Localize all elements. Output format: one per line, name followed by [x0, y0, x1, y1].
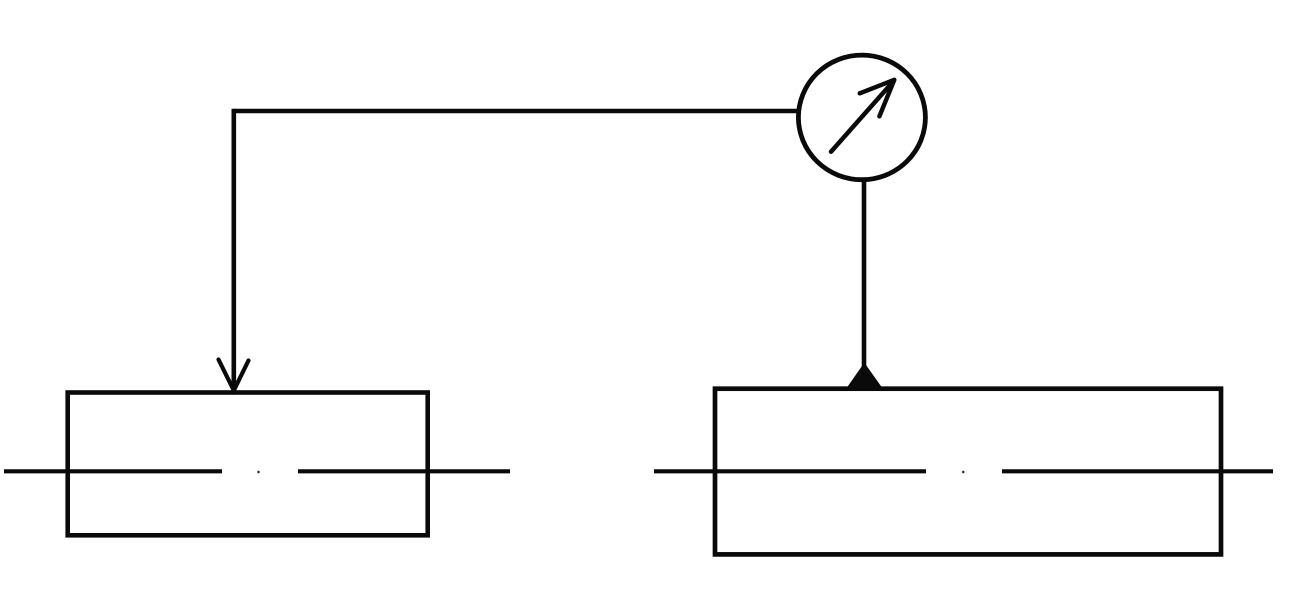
wire: vertical leader down to left part: [232, 109, 237, 389]
arrowhead touching left part top face: [219, 360, 249, 391]
centerline left part: long dash right: [298, 469, 510, 473]
left part rectangle: [68, 393, 428, 536]
indicator needle arrowhead: [860, 80, 895, 117]
wire: vertical stem from gauge to right part: [862, 179, 867, 372]
centerline right part: long dash right: [1002, 469, 1273, 473]
right part rectangle: [715, 389, 1221, 555]
wire: horizontal leader from indicator to left part: [234, 109, 799, 113]
centerline left part: center dot: [258, 471, 260, 473]
centerline left part: long dash left: [4, 469, 222, 473]
dial indicator gauge circle: [798, 55, 925, 180]
filled triangle contact point on right part: [846, 364, 884, 391]
centerline right part: long dash left: [654, 469, 926, 473]
centerline right part: center dot: [962, 471, 964, 473]
indicator needle shaft: [831, 81, 894, 152]
